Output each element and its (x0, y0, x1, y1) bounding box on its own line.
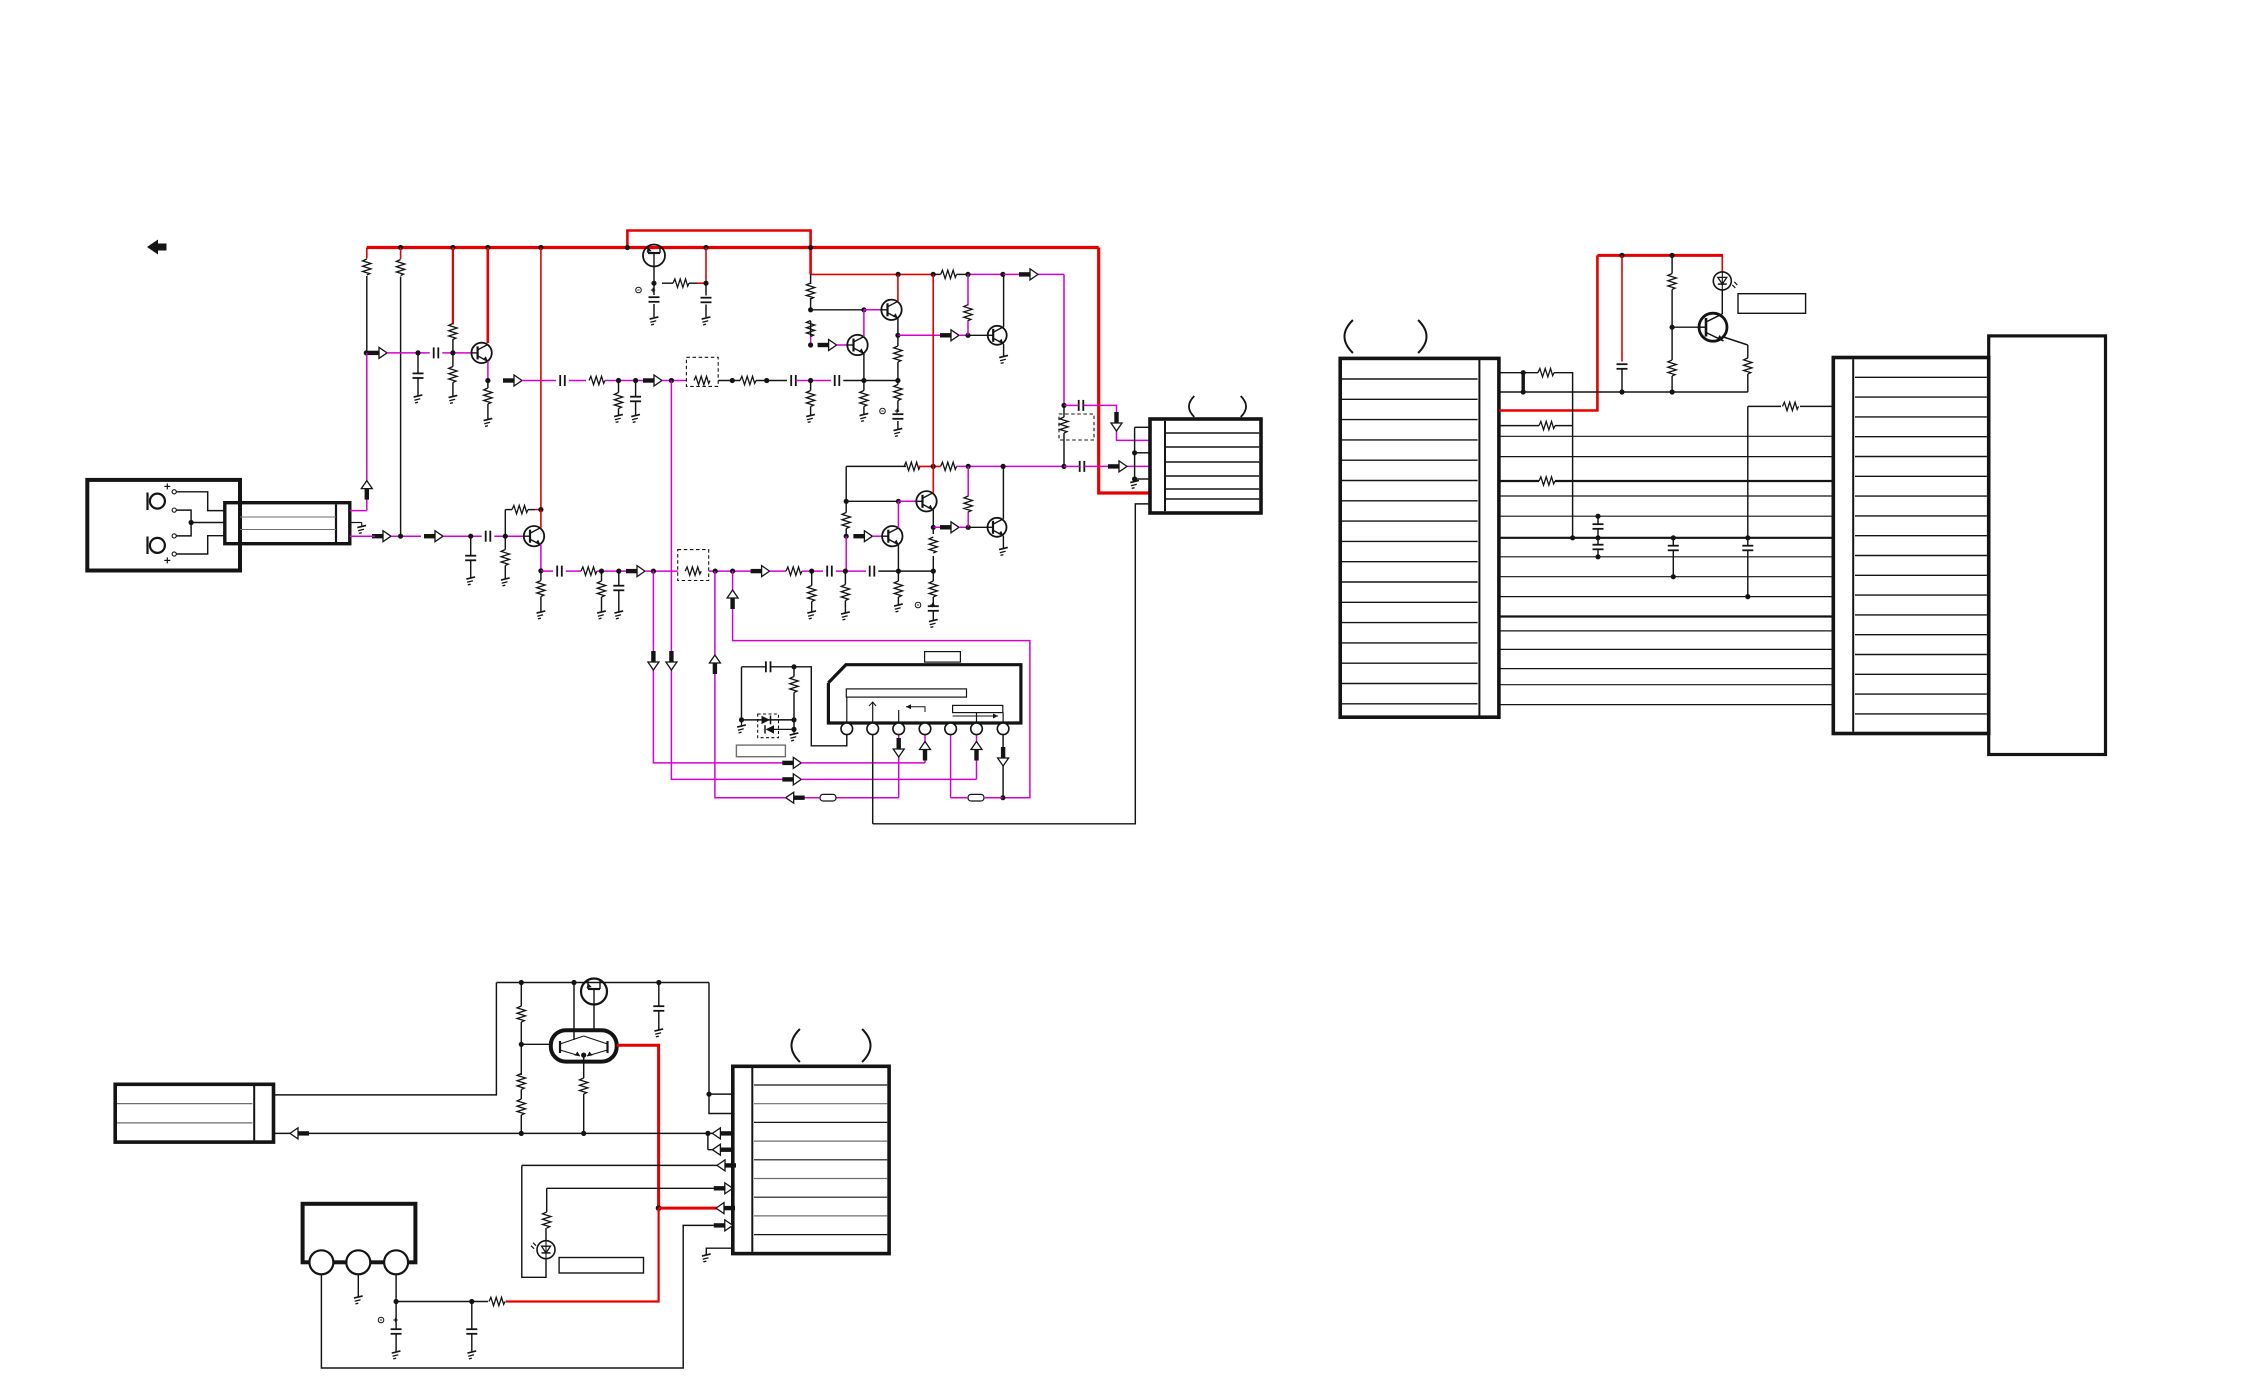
wire LED feed (1721, 255, 1723, 272)
node out L (1061, 403, 1066, 408)
CN101 row lines (1166, 433, 1259, 499)
wire ch2 line2 f (770, 570, 786, 572)
wire rev row (522, 1164, 733, 1166)
capacitor C113 (557, 566, 562, 577)
LED D201 (1713, 272, 1737, 290)
motor terminal 3 (384, 1250, 408, 1274)
wire Q102 collector (897, 274, 899, 301)
signal arrow (920, 742, 931, 761)
wire harness row 15 (1499, 704, 1833, 706)
resistor R301 (517, 983, 525, 1047)
wire ch1 line2 e (718, 378, 740, 383)
wire harness row 14 (1499, 684, 1833, 686)
resistor R128 (786, 567, 802, 575)
wire to Q114 node (959, 525, 971, 530)
IC101 internal bar (846, 689, 966, 697)
wire rail signal (965, 272, 1005, 277)
wire sense row b (1554, 373, 1573, 538)
wire Q114 bias (967, 466, 969, 527)
capacitor C102 (413, 353, 424, 396)
motor terminal 2 (346, 1250, 370, 1274)
wire IC pin7 (1002, 735, 1004, 798)
wire ch1 input (364, 350, 371, 355)
wire harness row 8 (1499, 576, 1833, 578)
wire servo left drop (274, 983, 497, 1095)
capacitor C104 (791, 375, 796, 386)
wire ch2 line2 a (541, 570, 553, 572)
resistor R134 (929, 571, 937, 602)
terminal +2 (164, 552, 176, 564)
resistor R203 (1744, 358, 1752, 392)
wire CN301 gnd stub (706, 1248, 733, 1254)
wire IC pin3 out (898, 735, 900, 798)
connector CN302 (mechanism) (115, 1084, 273, 1142)
wire ch2 line2 h (836, 569, 866, 574)
wire ch2 input c (494, 534, 524, 539)
capacitor C112 (465, 536, 476, 577)
wire shield common (191, 522, 225, 524)
resistor R305 (543, 1188, 551, 1228)
capacitor C109 (elco) (880, 408, 904, 429)
resistor R124 (501, 536, 509, 578)
wire R125 to red (535, 507, 544, 512)
wire Q104 base (968, 334, 988, 336)
wire ch1 line2 g (796, 378, 831, 383)
transistor Q301 (PNP) (581, 979, 607, 1005)
transistor Q105 (PNP) (643, 245, 665, 267)
signal arrow (782, 774, 801, 785)
capacitor C302 (elco) (378, 1302, 401, 1352)
signal arrow (818, 340, 837, 351)
wire rail2 (846, 465, 906, 467)
wire pin3 return b (801, 797, 820, 799)
capacitor C303 (466, 1302, 477, 1352)
resistor R107 (589, 376, 605, 384)
capacitor C106 (701, 283, 712, 317)
label box IC101 (925, 652, 961, 663)
wire wrap to pin5 (951, 735, 1003, 798)
wire ch1 line2 f (756, 378, 787, 383)
wire harness row 1 (1499, 435, 1833, 437)
wire motor t2 gnd (357, 1274, 359, 1296)
signal arrow (727, 590, 738, 609)
transistor Q112 (882, 526, 902, 546)
wire collector feed Q101 (486, 248, 489, 344)
wire diode net (739, 667, 797, 723)
wire drive down (red) (506, 1208, 659, 1301)
ground (894, 604, 904, 612)
resistor R103 (449, 324, 457, 340)
wire IC pin4 lead (801, 735, 925, 763)
wire R105 to +B (697, 248, 709, 286)
resistor R205 (1539, 421, 1555, 429)
connector CN202 (1833, 358, 1988, 734)
motor terminal 1 (309, 1250, 333, 1274)
wire ch1 line2 a (522, 380, 556, 382)
transistor Q101 (471, 343, 491, 363)
resistor R130 (537, 571, 545, 611)
resistor R120 (904, 462, 920, 470)
wire ch2 line2 b (566, 570, 581, 572)
resistor R122 (842, 513, 850, 529)
signal arrow (372, 531, 391, 542)
wire C130 to pin1 (794, 667, 847, 746)
wire Q103 collector (863, 310, 865, 337)
resistor R206 (1783, 402, 1799, 410)
wire ch2 input b (443, 534, 482, 539)
wire harness row 5 (1499, 515, 1833, 517)
wire Q114 base (968, 526, 987, 528)
wire divider (808, 274, 813, 347)
signal arrow (643, 375, 662, 386)
resistor R207 (1539, 477, 1555, 485)
capacitor C204 (1668, 538, 1679, 577)
resistor R106 (484, 381, 492, 420)
signal arrow (971, 742, 982, 761)
capacitor C111 (486, 531, 491, 542)
wire harness row 2 (1499, 456, 1833, 458)
wire pin3 return (836, 797, 899, 799)
wire rail2 b (918, 464, 941, 469)
wire +B2 drop (1499, 255, 1598, 410)
connector CN301 (servo board) (733, 1066, 889, 1253)
capacitor C202 (1593, 516, 1604, 538)
wire bias chain R (844, 466, 849, 571)
resistor R102 (396, 260, 404, 276)
wire ch1 seg (387, 350, 430, 355)
signal arrow (940, 522, 959, 533)
wire Q104 collector (1003, 274, 1005, 326)
resistor R121 (941, 462, 957, 470)
wire base net Q113 (846, 499, 916, 504)
wire harness row 3 (1499, 480, 1833, 482)
return arrow icon (147, 240, 167, 255)
signal arrow (853, 531, 872, 542)
wire ch2 line2 d (645, 569, 678, 574)
wire emitter out R (933, 526, 943, 528)
wire bias drop 2 (400, 248, 402, 537)
wire drive to CN301 (659, 1207, 733, 1210)
wire rail VCC2 (811, 273, 934, 275)
signal arrow (626, 566, 645, 577)
wire ch2 line2 c (597, 569, 628, 574)
signal arrow (648, 651, 659, 670)
wire ch1 line2 b (569, 380, 586, 382)
wire Q201 emitter (1724, 337, 1748, 358)
wire pin3 riser (715, 571, 786, 798)
ground (449, 395, 459, 403)
wire LED loop (522, 1165, 546, 1277)
resistor R201 (1668, 255, 1676, 329)
wire LED to Q201 (1721, 290, 1723, 314)
capacitor C120 (1064, 461, 1084, 472)
signal arrow (709, 655, 720, 674)
CN202 rows (1855, 377, 1987, 714)
resistor R125 (505, 505, 535, 513)
wire ch2 line2 g (802, 569, 823, 574)
ground (354, 1296, 364, 1304)
wire row 425 b (1555, 425, 1573, 427)
resistor R109 (740, 376, 756, 384)
wire rail2 c (957, 464, 1067, 469)
wire CN301 top rows (706, 983, 732, 1114)
wire +B drop to CN101 (1099, 248, 1150, 494)
resistor R133 (894, 571, 902, 604)
wire row 406 (1748, 406, 1781, 537)
transistor Q103 (847, 335, 867, 355)
wire Q104 emitter (1003, 344, 1005, 356)
wire cable out L (350, 353, 367, 511)
IC101 pins (841, 723, 1009, 735)
wire harness row 9 (1499, 596, 1833, 598)
wire base net Q102 (811, 307, 882, 312)
ferrite bead FB2 (968, 794, 984, 801)
signal arrow (751, 566, 770, 577)
ground (614, 611, 624, 619)
wire R305 row (547, 1187, 733, 1189)
signal arrow (424, 531, 443, 542)
terminal -2 (172, 534, 176, 538)
signal arrow (503, 375, 522, 386)
capacitor C116 (613, 571, 624, 611)
ground (702, 317, 712, 325)
wire Q114 collector (1002, 466, 1004, 518)
wire IC pin2 gnd (872, 735, 874, 824)
resistor R123 (964, 496, 972, 512)
wire ch1 line2 d (662, 378, 686, 383)
ground (484, 418, 494, 426)
signal arrow (290, 1128, 309, 1139)
wire Q102 emitter chain (894, 335, 902, 380)
wire to R306 (472, 1301, 488, 1303)
signal arrow (368, 347, 387, 358)
ground (807, 611, 817, 619)
wire ch2 input a (391, 534, 421, 539)
signal arrow (1108, 461, 1127, 472)
IC101 internal leads (847, 697, 1003, 723)
wire ch1 seg2 (442, 350, 471, 355)
microphone element M2 (148, 537, 165, 555)
wire collector feed Q103 (540, 248, 542, 510)
signal arrow (940, 330, 959, 341)
IC101 internal bar2 (953, 705, 1003, 712)
capacitor C301 (653, 983, 664, 1030)
resistor R140 (790, 667, 798, 720)
wire motor return (321, 1225, 732, 1368)
node bus junction A (398, 245, 813, 250)
wire Q101 emitter (485, 361, 490, 383)
wire Q103 emitter (863, 354, 865, 381)
wire +B2 bus (1597, 253, 1723, 258)
wire +B power bus (367, 246, 1099, 249)
wire to IC pin6 (671, 381, 785, 780)
capacitor C108 (630, 381, 641, 416)
ground (650, 317, 660, 325)
wire Q113 emit chain (929, 527, 937, 571)
ground (999, 547, 1009, 555)
resistor R110 (933, 270, 968, 278)
signal arrow (712, 1128, 731, 1139)
capacitor C201 (1617, 364, 1628, 394)
resistor R108 (trim) (686, 357, 718, 386)
resistor R131 (808, 571, 816, 611)
wire C201 feed (1621, 255, 1623, 361)
transistor Q201 (1699, 313, 1727, 341)
wire Q112 collector (897, 501, 899, 528)
jack panel box (87, 480, 240, 571)
wire harness row 7 (1499, 556, 1833, 558)
node wrap junction (1000, 795, 1005, 800)
wire out L (1083, 405, 1150, 440)
resistor R302 (517, 1044, 525, 1099)
wire Q102 emitter (895, 318, 900, 338)
capacitor C205 (1742, 538, 1753, 597)
wire Q201 base (1672, 326, 1699, 328)
resistor R202 (1668, 327, 1676, 394)
wire t3 filter (396, 1299, 474, 1304)
ground (702, 1254, 712, 1262)
wire feedback wrap (733, 571, 1030, 798)
signal arrow (714, 1220, 733, 1231)
capacitor C103 (560, 375, 565, 386)
wire to IC pin4 (653, 571, 785, 763)
wire mic1 cold (176, 510, 191, 522)
ground (737, 720, 747, 733)
ground (597, 611, 607, 619)
ground (537, 611, 547, 619)
ground (614, 414, 624, 422)
label box D101 (736, 745, 785, 757)
signal arrow (782, 757, 801, 768)
wire Q301 base/coll (574, 983, 594, 1041)
ferrite bead FB1 (820, 794, 836, 801)
wire harness row 6 (1499, 537, 1833, 539)
wire Q111 bias up (504, 510, 506, 537)
capacitor C105 (elco) (636, 283, 660, 317)
signal arrow (998, 747, 1009, 766)
resistor R126 (581, 567, 597, 575)
resistor R112 (806, 321, 814, 337)
wire harness row 11 (1499, 630, 1833, 632)
ground (790, 729, 800, 741)
resistor R114 (614, 381, 622, 416)
resistor R101 (363, 259, 371, 275)
resistor R116 (860, 381, 868, 415)
wire CN101 gnd rows (1132, 427, 1150, 481)
resistor R306 (489, 1297, 505, 1305)
wire out R (1084, 465, 1150, 467)
wire harness row 4 (1499, 495, 1833, 497)
signal arrow (1019, 269, 1038, 280)
ground (501, 578, 511, 586)
capacitor C115 (870, 566, 875, 577)
wire L-out drop (1063, 274, 1065, 405)
wire bias drop 3 (452, 248, 454, 353)
wire to Q112 base (872, 535, 882, 537)
wire emitter out (898, 334, 943, 336)
capacitor C130 (742, 661, 797, 672)
terminal -1 (172, 508, 176, 512)
signal arrow (712, 1144, 731, 1155)
CN301 rows (754, 1085, 887, 1235)
ground (999, 355, 1009, 363)
wire row 425 (1499, 425, 1539, 427)
wire Q104 bias (967, 274, 969, 335)
ground (841, 612, 851, 620)
shielded cable W101 (225, 503, 350, 544)
signal arrow (716, 1203, 735, 1214)
signal arrow (714, 1183, 733, 1194)
LED D301 (531, 1241, 555, 1259)
wire +B upper loop (627, 231, 810, 275)
resistor R111 (806, 283, 814, 299)
signal arrow (666, 651, 677, 670)
wire Q111 emitter (538, 545, 543, 574)
label box D301 (559, 1258, 643, 1274)
resistor R115 (806, 381, 814, 416)
wire rail to out (1003, 273, 1064, 275)
label ( ) CN201 (1344, 320, 1426, 353)
ground (467, 1351, 477, 1359)
node rail junctions (896, 272, 936, 277)
IC101 body (828, 665, 1021, 723)
node harness junctions (1570, 514, 1750, 600)
ground (894, 428, 904, 436)
diode D101 pair (758, 714, 797, 738)
wire harness row 10 (1499, 615, 1833, 617)
wire Q113 collector (932, 466, 934, 492)
wire VCC cross (932, 274, 934, 466)
resistor R303 (517, 1099, 525, 1136)
wire ch2 line2 e (709, 569, 754, 574)
resistor R118 (damper) (1059, 405, 1094, 466)
ground (654, 1029, 664, 1037)
transistor Q111 (524, 526, 544, 546)
resistor R304 (580, 1055, 588, 1136)
capacitor C203 (1593, 538, 1604, 557)
transistor Q104 (988, 326, 1007, 345)
wire Q112 emitter (897, 545, 899, 571)
label ( ) CN301 (791, 1029, 870, 1062)
capacitor C101 (434, 347, 439, 358)
signal arrow (717, 1160, 736, 1171)
capacitor C110 (1064, 400, 1083, 411)
transistor Q102 (881, 300, 901, 320)
motor block M301 (303, 1204, 416, 1263)
wire R301 to pack (521, 1043, 551, 1045)
wire gnd rail (1499, 389, 1748, 394)
wire IC pin6 lead (801, 735, 976, 780)
ground (392, 1351, 402, 1359)
connector CN201 (1340, 358, 1499, 717)
wire to Q103 base (837, 344, 847, 346)
transistor Q114 (988, 518, 1007, 537)
ground (357, 525, 367, 533)
terminal +1 (164, 483, 176, 494)
wire ch2 line2 i (878, 569, 936, 574)
wire to Q104 base node (959, 333, 971, 338)
wire drive out (red) (617, 1045, 659, 1208)
ground (1130, 480, 1140, 488)
ground (414, 395, 424, 403)
ground (631, 414, 641, 422)
resistor R129 (597, 571, 605, 611)
resistor R104 (449, 353, 457, 396)
ground (929, 619, 939, 627)
wire mic1 hot (176, 492, 225, 511)
resistor R117 (894, 381, 902, 409)
wire sense row (1499, 370, 1538, 392)
